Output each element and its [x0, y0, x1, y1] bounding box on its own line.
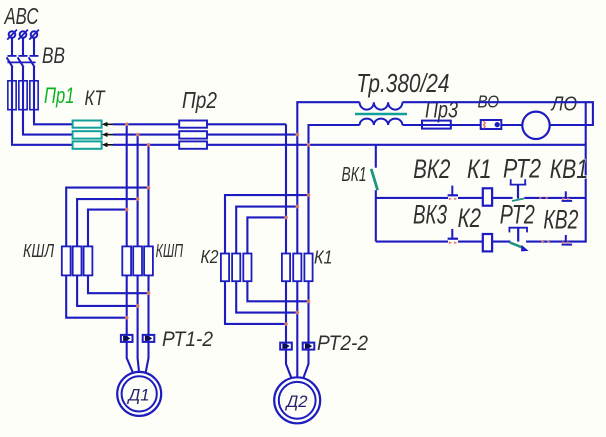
svg-text:ЛО: ЛО: [550, 93, 577, 116]
fuse Пр1 pole 1: [8, 80, 16, 144]
wire secondary to Пр3: [402, 124, 480, 126]
label ВО (lamp switch): [478, 92, 500, 112]
wire Д2 line 3 to motor: [303, 350, 308, 379]
label Пр3 (control fuse): [425, 97, 458, 123]
wire bus 3 / control feed: [207, 144, 586, 146]
node Д1 upper 1: [147, 186, 151, 190]
wire КШЛ upper bracket 1: [66, 188, 148, 247]
label К2 (contactor contacts): [201, 247, 219, 267]
wire Д2 vertical 3 lower: [307, 281, 309, 343]
label РТ2 (row 2): [500, 199, 535, 229]
wire К2 upper bracket 1: [225, 195, 309, 253]
coil К2: [483, 234, 492, 251]
label К1 (contactor contacts): [314, 247, 333, 267]
lamp ЛО: [522, 112, 549, 139]
contactor КТ arrow 2: [102, 132, 113, 137]
contact marks row 2 (РТ2-КВ2): [541, 240, 550, 243]
node Д2 lower 2: [296, 311, 300, 315]
wire К2 upper bracket 2: [236, 207, 297, 254]
wire bus 2 (Пр2 to transformer tap): [207, 134, 297, 136]
svg-text:ВК1: ВК1: [342, 164, 367, 186]
label КШП (contactor contacts): [156, 240, 184, 261]
node Д2 lower 3: [284, 322, 288, 326]
wire К2 lower bracket 2: [236, 281, 297, 312]
svg-text:Д1: Д1: [127, 386, 150, 405]
wire ВО to ЛО: [501, 124, 522, 126]
wire row 2 segment b: [458, 241, 483, 243]
svg-text:Пр2: Пр2: [182, 87, 217, 113]
svg-text:РТ1-2: РТ1-2: [162, 327, 213, 351]
contact КШП 3: [144, 246, 153, 275]
node bus 3 / Д1 tap: [147, 143, 151, 147]
wire Д1 line 1 to motor: [127, 342, 133, 373]
wire Д1 line 3 to motor: [146, 342, 149, 373]
label КТ (contactor): [85, 87, 107, 110]
contact КВ2: [562, 235, 573, 245]
fuse Пр1 pole 3: [30, 80, 38, 123]
wire row 1 segment c: [492, 197, 512, 199]
wire row 2 segment d: [526, 241, 586, 243]
input terminal phase С: [29, 30, 39, 56]
node Д1 lower 3: [147, 291, 151, 295]
wire КШЛ upper bracket 3: [88, 210, 127, 247]
svg-text:КТ: КТ: [85, 87, 107, 110]
wire Д2 vertical 2 lower: [296, 281, 298, 377]
contact КШЛ 2: [73, 246, 82, 275]
fuse Пр2 pole 1: [179, 121, 207, 128]
wire Д1 vertical 1 lower: [126, 275, 128, 335]
node Д2 upper 3: [284, 216, 288, 220]
contact РТ2 (row 1, thermal): [510, 179, 526, 201]
node Д1 upper 2: [136, 197, 140, 201]
switch ВВ linkage bar: [7, 61, 35, 63]
wire lamp circuit (top): [402, 102, 593, 125]
label К1 (coil): [467, 154, 492, 184]
svg-text:РТ2: РТ2: [500, 199, 535, 229]
contactor КТ contact 1 (teal): [73, 121, 102, 128]
svg-text:АВС: АВС: [3, 3, 39, 29]
wire Д1 vertical 3 lower: [147, 275, 149, 335]
wire Д1 vertical 1 upper: [126, 124, 128, 246]
label КВ1: [550, 154, 588, 184]
wire К2 lower bracket 1: [247, 281, 308, 301]
contact РТ2 (row 2, thermal, open): [509, 228, 529, 252]
wire bus 1 (Пр2 to Д2 branch): [207, 123, 286, 125]
node bus 2 / Д1 tap: [136, 133, 140, 137]
svg-text:К1: К1: [314, 247, 333, 267]
transformer secondary lead + winding (bottom): [309, 119, 403, 254]
wire bus 2 (КТ to Пр2): [113, 134, 179, 136]
svg-text:РТ2-2: РТ2-2: [317, 331, 368, 355]
label РТ1-2 (thermal relay): [162, 327, 213, 351]
transformer Тр primary lead + winding (top): [297, 102, 402, 253]
wire row 2 segment c: [492, 241, 510, 243]
node Д2 upper 1: [307, 193, 311, 197]
wire bus 1 (КТ to Пр2): [113, 123, 179, 125]
contact КШП 2: [133, 246, 142, 275]
node Д2 upper 2: [296, 205, 300, 209]
contact КШП 1: [122, 246, 131, 275]
contact КВ1: [562, 191, 573, 201]
svg-text:КВ2: КВ2: [543, 205, 578, 235]
svg-text:К1: К1: [467, 154, 492, 184]
switch ВВ pole 2: [18, 56, 28, 81]
fuse Пр2 pole 2: [179, 131, 207, 138]
contactor КТ contact 3 (teal): [73, 141, 102, 148]
motor Д2: [274, 377, 320, 423]
node Д1 lower 2: [136, 304, 140, 308]
label АВС (phase designations): [3, 3, 39, 29]
wire phase 1 bend to bus 3: [11, 144, 73, 146]
thermal element РТ1-2 /2: [143, 335, 155, 342]
label ВВ (main switch): [42, 43, 65, 68]
svg-text:ВК2: ВК2: [413, 154, 450, 184]
svg-text:Пр1: Пр1: [44, 83, 75, 108]
wire bus 3 (КТ to Пр2): [113, 144, 179, 146]
wire Д1 vertical 2 lower: [138, 275, 139, 372]
contactor КТ arrow 3: [102, 142, 113, 147]
wire КШЛ lower bracket 2: [77, 275, 138, 306]
wire Д2 line 1 to motor: [286, 350, 292, 379]
label Тр.380/24 (transformer): [356, 68, 449, 98]
node Д1 upper 3: [125, 208, 129, 212]
node bus 1 / Д1 tap: [125, 123, 129, 127]
svg-text:ВК3: ВК3: [413, 199, 447, 229]
fuse Пр1 pole 2: [19, 80, 27, 134]
contact К2 /1: [221, 254, 229, 282]
label ВК3: [413, 199, 447, 229]
label РТ2 (row 1): [503, 153, 541, 183]
svg-text:КШП: КШП: [156, 240, 184, 261]
label РТ2-2 (thermal relay): [317, 331, 368, 355]
svg-text:Тр.380/24: Тр.380/24: [356, 68, 449, 98]
svg-text:К2: К2: [458, 203, 481, 233]
wire Д1 vertical 3 upper: [147, 145, 149, 247]
label ВК2: [413, 154, 450, 184]
wire К2 upper bracket 3: [247, 217, 286, 253]
contact ВК1 (green blade): [371, 145, 377, 242]
label Пр1 (fuses, green): [44, 83, 75, 108]
wire phase 3 bend to bus 1: [33, 123, 73, 125]
contact К2 /2: [232, 254, 240, 282]
label ВК1: [342, 164, 367, 186]
wire Д2 vertical 3 upper: [307, 145, 309, 254]
label Пр2 (fuses): [182, 87, 217, 113]
wire КШЛ lower bracket 1: [66, 275, 127, 317]
svg-text:КШЛ: КШЛ: [23, 240, 54, 261]
label КВ2: [543, 205, 578, 235]
coil К1: [483, 188, 492, 205]
wire row 1 segment d: [524, 197, 585, 199]
contact КШЛ 1: [62, 246, 71, 275]
contactor КТ contact 2 (teal): [73, 131, 102, 138]
svg-text:К2: К2: [201, 247, 219, 267]
contactor КТ arrow 1: [102, 122, 113, 127]
fuse Пр2 pole 3: [179, 141, 207, 148]
switch ВВ pole 3: [29, 56, 39, 81]
motor Д1: [117, 372, 161, 416]
contact КШЛ 3: [84, 246, 93, 275]
contact К1 /2: [293, 254, 301, 282]
svg-text:Д2: Д2: [285, 392, 308, 411]
thermal element РТ2-2 /2: [303, 343, 315, 350]
node Д2 lower 1: [307, 300, 311, 304]
switch ВО: [481, 120, 502, 129]
wire Д2 vertical 1 lower: [285, 281, 287, 343]
svg-text:Пр3: Пр3: [425, 97, 458, 123]
switch ВВ pole 1: [7, 56, 17, 81]
label КШЛ (contactor contacts): [23, 240, 54, 261]
transformer core (teal): [355, 113, 407, 116]
contact ВК3: [448, 229, 458, 244]
wire Д1 vertical 2 upper: [137, 135, 139, 247]
node control feed tap bus 3: [307, 143, 311, 147]
contact К1 /3: [304, 254, 312, 282]
wire КШЛ lower bracket 3: [88, 275, 149, 293]
wire КШЛ upper bracket 2: [77, 199, 138, 246]
node transformer tap bus 2: [296, 133, 300, 137]
contact К2 /3: [243, 254, 251, 282]
wire row 1 segment b: [458, 197, 483, 199]
fuse Пр3: [422, 121, 451, 129]
wire row 2 segment a: [376, 241, 448, 243]
input terminal phase А: [7, 30, 17, 56]
wire К2 lower bracket 3: [225, 281, 286, 324]
contact marks row 1 (РТ2-КВ1): [539, 197, 548, 200]
contact ВК2: [448, 186, 458, 201]
node Д1 lower 1: [125, 316, 129, 320]
thermal element РТ2-2 /1: [280, 343, 292, 350]
thermal element РТ1-2 /1: [121, 335, 133, 342]
wire row 1 segment a: [376, 197, 448, 199]
svg-text:КВ1: КВ1: [550, 154, 588, 184]
svg-text:ВВ: ВВ: [42, 43, 65, 68]
contact К1 /1: [282, 254, 290, 282]
label ЛО (lamp): [550, 93, 577, 116]
input terminal phase В: [18, 30, 28, 56]
wire right rail: [585, 102, 587, 242]
wire phase 2 bend to bus 2: [22, 134, 73, 136]
wire Д2 vertical 1 upper: [285, 124, 287, 253]
label К2 (coil): [458, 203, 481, 233]
svg-text:РТ2: РТ2: [503, 153, 541, 183]
